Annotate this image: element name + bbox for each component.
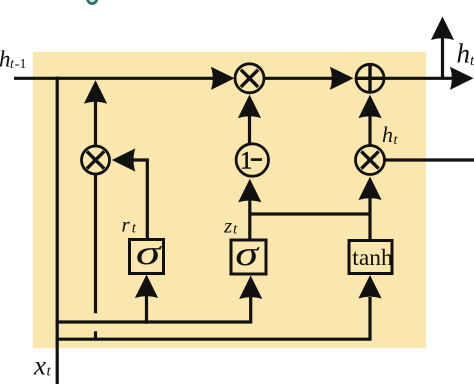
add node A1 (356, 64, 385, 93)
multiply node M1 (on main line) (235, 64, 264, 93)
wire: M3 top to A1 (368, 115, 371, 146)
wire: h_t up branch (441, 38, 444, 78)
label r_t (122, 213, 137, 237)
svg-text:x: x (33, 351, 46, 381)
svg-text:t: t (47, 364, 52, 380)
arrowhead into tanh bottom (358, 275, 381, 299)
GRU cell background (33, 52, 426, 349)
svg-text:-1: -1 (15, 57, 27, 72)
wire: M3 output to right edge (385, 158, 474, 161)
label x_t (33, 351, 52, 381)
arrowhead from sigma r into M2 (112, 148, 136, 171)
label h_t (candidate, at M3) (382, 122, 399, 148)
sigma box Z (update gate) (231, 233, 266, 274)
svg-text:tanh: tanh (352, 245, 393, 271)
multiply node M2 (reset applied) (82, 146, 110, 174)
caption fragment (teal glyph, cut at top edge) (88, 0, 97, 4)
wire: z branch to tanh column (250, 212, 370, 215)
label h_t (top right) (457, 39, 474, 70)
svg-text:h: h (457, 39, 471, 69)
svg-text:t: t (470, 53, 474, 69)
arrowhead h_t up output (431, 17, 454, 41)
wire: M2 bottom stub (crosses bus 1 with gap) (94, 174, 97, 314)
svg-text:σ: σ (136, 234, 163, 272)
arrowhead into sigma Z bottom (239, 276, 262, 300)
multiply node M3 (356, 146, 385, 175)
wire: sigma z output up to 1-minus (through z tee) (248, 199, 251, 241)
wire: tanh output up to M3 (368, 197, 371, 241)
svg-text:1: 1 (240, 148, 253, 175)
wire: sigma r output elbow to M2 (133, 160, 147, 240)
arrowhead from multiply node M3 into add node A1 (358, 95, 381, 119)
wire: main h line right segment (383, 77, 456, 80)
arrowhead into add node A1 (330, 67, 354, 90)
wire: 1-minus top to M1 (248, 115, 251, 146)
wire: bus 1 from x_t column turning up into sigma Z (56, 297, 251, 322)
arrowhead into M3 bottom (358, 177, 381, 201)
wire: main h line left segment (14, 77, 220, 80)
label z_t (223, 214, 238, 238)
wire: M2 top to main line (94, 99, 97, 147)
arrowhead from 1-minus into multiply node M1 (238, 95, 261, 119)
label h_t-1 (0, 47, 26, 73)
svg-text:h: h (0, 47, 11, 72)
arrowhead into multiply node M1 (211, 67, 235, 90)
wire: M2 tick to bus 2 (94, 331, 97, 340)
wire: main h line between M1 and add node (263, 77, 340, 80)
arrowhead into sigma R bottom (135, 275, 158, 299)
sigma box R (reset gate) (130, 234, 164, 274)
svg-text:h: h (382, 122, 393, 147)
wire: bus 1 tee up to sigma R (145, 296, 148, 324)
svg-text:σ: σ (235, 233, 260, 272)
svg-text:z: z (223, 214, 232, 238)
arrowhead into 1-minus bottom (238, 179, 261, 203)
tanh box (349, 241, 393, 274)
arrowhead from multiply node M2 into main line (84, 80, 107, 104)
arrowhead at right edge (h out) (450, 67, 474, 90)
1-minus node (236, 144, 268, 176)
wire: bus 2 from x_t column turning up into tanh (56, 297, 370, 339)
svg-text:r: r (122, 213, 131, 237)
wire: x_t vertical input (56, 77, 59, 384)
